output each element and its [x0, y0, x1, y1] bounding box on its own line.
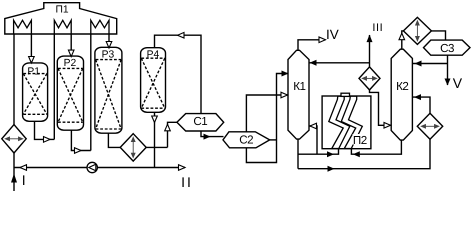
svg-text:К2: К2 [396, 80, 408, 93]
svg-text:III: III [372, 22, 383, 34]
svg-text:I: I [22, 172, 26, 188]
svg-text:IV: IV [326, 27, 339, 42]
svg-text:II: II [181, 174, 193, 190]
svg-text:К1: К1 [293, 80, 305, 93]
svg-text:Р4: Р4 [147, 49, 160, 60]
svg-text:Р2: Р2 [64, 58, 77, 69]
svg-text:П1: П1 [56, 5, 69, 16]
svg-text:С3: С3 [440, 42, 454, 55]
svg-text:П2: П2 [353, 134, 367, 147]
svg-text:С1: С1 [193, 115, 207, 128]
svg-text:С2: С2 [239, 134, 253, 147]
svg-text:V: V [453, 75, 463, 91]
svg-text:Р1: Р1 [27, 66, 40, 77]
svg-text:Р3: Р3 [102, 49, 115, 60]
